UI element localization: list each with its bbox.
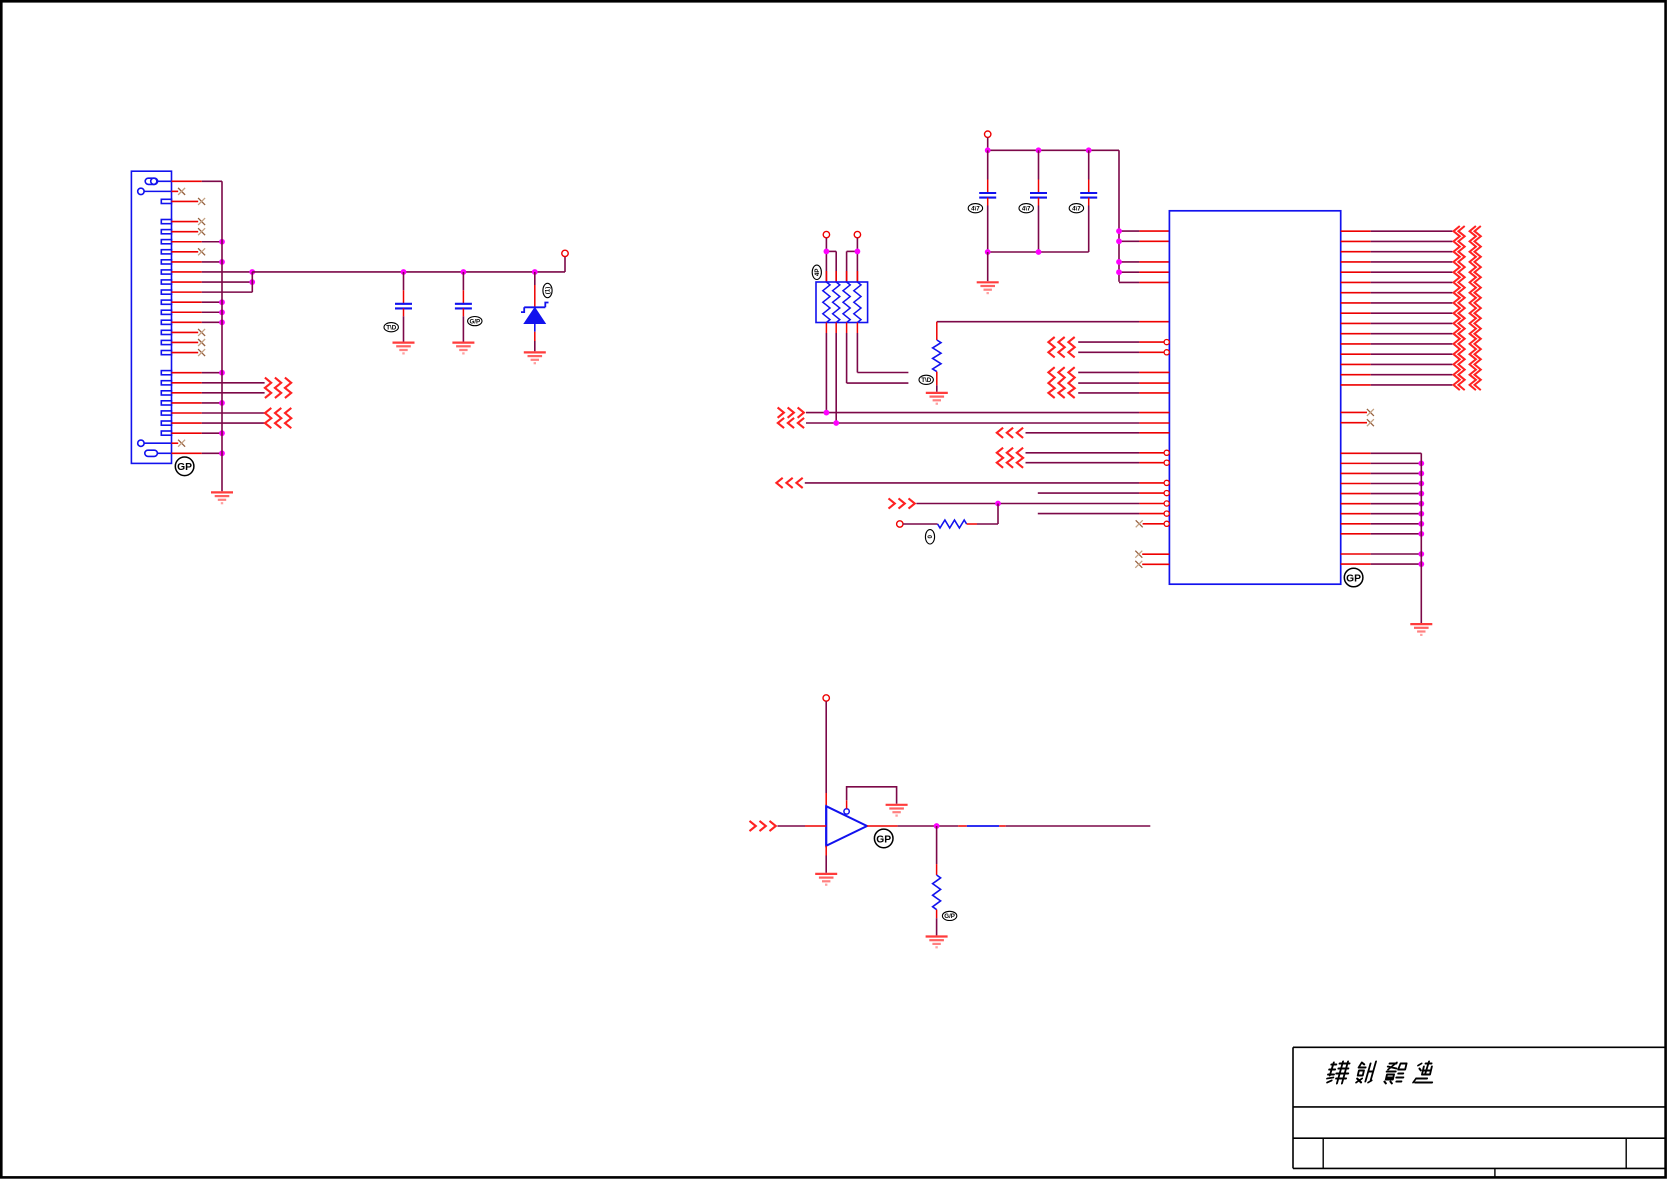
capacitor C1 [395, 303, 412, 305]
junction [532, 269, 538, 275]
junction [824, 249, 830, 255]
wire no-connect stub [1341, 411, 1367, 413]
value label R2 [925, 530, 934, 544]
junction [1116, 238, 1122, 244]
junction [219, 239, 225, 245]
junction [1418, 481, 1424, 487]
junction [1418, 460, 1424, 466]
svg-text:T\D: T\D [386, 324, 396, 331]
capacitor C2 [455, 303, 472, 305]
junction [219, 309, 225, 315]
wire [1088, 198, 1090, 206]
wire [462, 272, 464, 290]
value label C4 [1019, 204, 1033, 213]
wire U1 ground pins [1341, 453, 1422, 564]
wire [835, 251, 837, 282]
svg-text:GP: GP [1346, 573, 1361, 584]
wire [1078, 341, 1139, 343]
svg-text:G/P: G/P [944, 913, 955, 920]
wire [987, 252, 989, 281]
no-connect X [198, 198, 205, 205]
junction [1418, 551, 1424, 557]
svg-text:0: 0 [927, 535, 934, 539]
terminal pull-up R2 [897, 521, 903, 527]
wire no-connect stub [172, 251, 199, 253]
junction [985, 147, 991, 153]
wire [462, 308, 464, 316]
junction [219, 299, 225, 305]
wire U1 data bus pins [1341, 231, 1453, 385]
junction [855, 249, 861, 255]
wire long signal [805, 482, 1140, 484]
junction [219, 370, 225, 376]
wire [825, 238, 827, 282]
terminal VCC U2 [823, 695, 829, 701]
junction [995, 501, 1001, 507]
wire [1078, 392, 1139, 394]
reference GP label of U2 [874, 829, 893, 848]
off-page chevrons out [265, 378, 291, 398]
capacitor C5 [1080, 192, 1097, 194]
wire J1 signal in [172, 422, 202, 424]
wire link B [847, 250, 858, 252]
no-connect X [198, 329, 205, 336]
junction [934, 823, 940, 829]
wire [534, 272, 536, 285]
junction [833, 420, 839, 426]
wire long signal [806, 422, 1139, 424]
svg-text:T\D: T\D [921, 377, 931, 384]
off-page chevrons data B [1470, 226, 1481, 390]
junction [1418, 561, 1424, 567]
wire [1038, 492, 1140, 494]
wire ground bus [1420, 453, 1422, 623]
terminal VCC [985, 131, 991, 137]
wire [1038, 513, 1140, 515]
wire [1143, 523, 1164, 525]
junction [219, 319, 225, 325]
wire [1088, 150, 1090, 179]
wire [1119, 230, 1139, 232]
wire J1 signal out [172, 382, 202, 384]
wire [936, 322, 938, 340]
ground [452, 343, 474, 354]
wire [1026, 462, 1140, 464]
wire buffer output [867, 825, 1150, 827]
wire J1 pin to bus [172, 402, 202, 404]
no-connect X [198, 349, 205, 356]
junction [985, 249, 991, 255]
wire power feed to U1 [1118, 150, 1120, 281]
wire J1 pin 12 to node VCC3 [172, 291, 202, 293]
connector J1 pins [161, 199, 171, 435]
value label C5 [1069, 204, 1083, 213]
wire J1 signal out [172, 392, 202, 394]
wire [403, 308, 405, 316]
svg-text:4\7: 4\7 [1022, 205, 1031, 212]
no-connect X [1367, 409, 1374, 416]
off-page chevrons in [889, 498, 915, 508]
pin 2 hole [138, 188, 172, 194]
wire [936, 372, 938, 386]
wire net to R1 [937, 321, 1140, 323]
off-page chevrons in [750, 821, 776, 831]
capacitor C3 [979, 192, 996, 194]
wire [403, 272, 405, 290]
pin 28 keyed [145, 450, 172, 456]
reference GP label of J1 [175, 457, 194, 476]
ground [977, 282, 999, 293]
ground [211, 492, 233, 503]
wire J1 pin to bus [172, 432, 202, 434]
wire [987, 198, 989, 206]
wire J1 pin to bus [172, 301, 202, 303]
wire no-connect stub [172, 352, 199, 354]
value label C3 [968, 204, 982, 213]
wire J1 pin to bus [172, 321, 202, 323]
wire [1119, 271, 1139, 273]
svg-text:GP: GP [876, 834, 891, 845]
no-connect X [178, 440, 185, 447]
wire [534, 324, 536, 332]
no-connect X [1136, 520, 1143, 527]
wire no-connect stub [172, 341, 199, 343]
wire [1078, 371, 1139, 373]
junction [1116, 228, 1122, 234]
zener diode D1 [521, 303, 549, 324]
junction [1418, 511, 1424, 517]
ground [886, 805, 908, 816]
wire [1078, 382, 1139, 384]
wire J1 pin to bus [172, 180, 202, 182]
resistor R1 [933, 340, 941, 372]
junction [249, 269, 255, 275]
no-connect X [198, 248, 205, 255]
off-page chevrons data A [1454, 226, 1465, 390]
wire [825, 846, 827, 856]
off-page chevrons in [1048, 367, 1074, 398]
wire net VCC3 run [252, 271, 565, 273]
no-connect X [1135, 561, 1142, 568]
no-connect X [1135, 551, 1142, 558]
wire link A [826, 250, 836, 252]
wire J1 pin 10 to node VCC3 [172, 271, 202, 273]
value label D1 [543, 283, 552, 297]
wire J1 pin to bus [172, 311, 202, 313]
junction [1418, 521, 1424, 527]
wire [1026, 432, 1140, 434]
wire no-connect stub [1341, 422, 1367, 424]
junction [1418, 501, 1424, 507]
wire [903, 523, 938, 525]
junction [1418, 471, 1424, 477]
wire [835, 323, 837, 334]
junction [824, 410, 830, 416]
wire [856, 238, 858, 282]
wire [1078, 351, 1139, 353]
wire [987, 137, 989, 150]
value label C1 [384, 323, 398, 332]
svg-text:4P: 4P [814, 269, 821, 277]
reference GP label of U1 [1344, 568, 1363, 587]
wire [825, 806, 827, 846]
wire J1 ground bus [221, 181, 223, 491]
svg-text:GP: GP [177, 462, 192, 473]
pin 27 hole [138, 440, 172, 446]
resistor pack RP1 [816, 282, 868, 323]
value label R1 [919, 375, 933, 384]
value label C2 [468, 317, 482, 326]
wire J1 pin 11 to node VCC3 [172, 281, 202, 283]
wire enable to ground [846, 800, 848, 808]
wire J1 pin to bus [172, 241, 202, 243]
junction [1418, 531, 1424, 537]
wire [936, 826, 938, 864]
terminal VCC3 [562, 250, 568, 256]
wire buffer input [778, 825, 806, 827]
no-connect X [198, 218, 205, 225]
buffer U2 [826, 806, 867, 846]
wire J1 pin to bus [172, 261, 202, 263]
wire terminal riser [564, 257, 566, 272]
off-page chevrons in [778, 408, 804, 418]
junction [1036, 249, 1042, 255]
junction [219, 430, 225, 436]
wire J1 pin to bus [172, 452, 202, 454]
value label RP1 [812, 265, 821, 279]
wire [825, 323, 827, 334]
wire J1 signal in [172, 412, 202, 414]
wire [1142, 553, 1169, 555]
svg-text:4\7: 4\7 [1072, 205, 1081, 212]
wire [1119, 261, 1139, 263]
company name text [1326, 1062, 1437, 1084]
IC U1 [1169, 211, 1340, 584]
wire [967, 523, 977, 525]
wire [846, 251, 848, 282]
junction [249, 279, 255, 285]
wire [846, 323, 848, 334]
junction [219, 450, 225, 456]
value label R3 [942, 911, 956, 920]
junction [1086, 147, 1092, 153]
wire [1038, 150, 1040, 179]
connector J1 [131, 171, 171, 463]
junction [401, 269, 407, 275]
wire no-connect stub [172, 200, 199, 202]
wire power rail top [988, 149, 1119, 151]
wire power rail bottom [988, 251, 1089, 253]
off-page chevrons in [265, 408, 291, 428]
junction [461, 269, 467, 275]
title block [1293, 1047, 1666, 1177]
wire long signal [806, 412, 1139, 414]
capacitor C4 [1030, 192, 1047, 194]
wire [916, 503, 1139, 505]
wire [1119, 281, 1139, 283]
wire [856, 323, 858, 334]
no-connect X [198, 228, 205, 235]
no-connect X [198, 339, 205, 346]
terminal pull-up A [823, 231, 829, 237]
ground [926, 393, 948, 404]
wire [1038, 198, 1040, 206]
junction [1036, 147, 1042, 153]
svg-text:(1): (1) [545, 287, 552, 295]
junction [1418, 491, 1424, 497]
wire J1 pin to bus [172, 372, 202, 374]
svg-text:G/P: G/P [469, 318, 480, 325]
no-connect X [178, 188, 185, 195]
wire [825, 701, 827, 793]
off-page chevrons in [1048, 337, 1074, 357]
ground [1410, 624, 1432, 635]
off-page chevrons in [997, 428, 1023, 438]
junction [1116, 259, 1122, 265]
no-connect X [1367, 419, 1374, 426]
pin 1 keyed [145, 178, 171, 184]
wire [1026, 452, 1140, 454]
terminal pull-up B [854, 231, 860, 237]
off-page chevrons in [997, 448, 1023, 468]
junction [219, 400, 225, 406]
wire [1142, 563, 1169, 565]
wire no-connect stub [172, 442, 179, 444]
junction [1116, 269, 1122, 275]
svg-text:4\7: 4\7 [971, 205, 980, 212]
wire node VCC3 vertical [251, 272, 253, 292]
resistor R2 [938, 520, 967, 528]
wire [936, 910, 938, 919]
resistor R3 [933, 875, 941, 910]
ground [926, 937, 948, 948]
off-page chevrons out [778, 418, 804, 428]
ground [393, 343, 415, 354]
junction [219, 259, 225, 265]
off-page chevrons in [776, 478, 802, 488]
wire no-connect stub [172, 231, 199, 233]
wire no-connect stub [172, 331, 199, 333]
wire [1119, 240, 1139, 242]
ground [524, 352, 546, 363]
wire no-connect stub [172, 221, 199, 223]
enable bubble [844, 809, 849, 814]
wire no-connect stub [172, 190, 179, 192]
wire [987, 150, 989, 179]
ground [815, 874, 837, 885]
